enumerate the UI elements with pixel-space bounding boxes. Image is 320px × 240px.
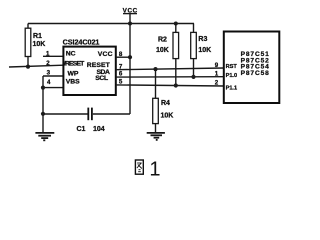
resistor R4 — [153, 98, 174, 123]
wire R2 top — [175, 24, 177, 33]
svg-text:4: 4 — [47, 79, 51, 86]
svg-text:R2: R2 — [158, 37, 167, 44]
svg-text:/RESET: /RESET — [64, 60, 85, 67]
svg-text:104: 104 — [93, 126, 105, 133]
MCU U2 P87C5x body — [224, 32, 279, 104]
wire R2 bottom to SCL — [175, 59, 177, 86]
power symbol VCC — [123, 7, 138, 23]
svg-text:SCL: SCL — [95, 75, 108, 82]
svg-text:R1: R1 — [33, 33, 42, 40]
wire pin3 stub — [43, 75, 63, 77]
IC U1 CSI24C021 body — [63, 47, 115, 95]
wire ground stem — [42, 114, 44, 133]
wire left vertical pin3-pin4-ground — [42, 76, 44, 114]
svg-text:2: 2 — [215, 80, 219, 87]
wire pin4 stub — [43, 87, 63, 89]
svg-text:CSI24C021: CSI24C021 — [63, 37, 100, 46]
wire R4 top — [155, 69, 157, 98]
svg-text:P1.0: P1.0 — [226, 73, 238, 79]
resistor R2 — [156, 32, 179, 58]
svg-text:NC: NC — [66, 50, 76, 57]
wire R3 bottom to SDA — [193, 59, 195, 77]
wire C1 right — [93, 113, 130, 115]
svg-text:10K: 10K — [156, 47, 169, 54]
wire C1 left — [43, 113, 88, 115]
svg-text:RESET: RESET — [87, 62, 111, 69]
caption glyph 图 (drawn) — [135, 160, 143, 174]
node junction R4 on line A — [153, 67, 157, 71]
ground GND2 — [147, 133, 165, 140]
svg-text:10K: 10K — [161, 113, 174, 120]
svg-text:RST: RST — [226, 64, 238, 70]
svg-text:P87C58: P87C58 — [241, 70, 270, 77]
svg-text:10K: 10K — [33, 41, 46, 48]
wire pin8 stub — [116, 56, 130, 58]
svg-text:C1: C1 — [77, 126, 86, 133]
wire VCC rail — [28, 23, 194, 25]
svg-text:1: 1 — [215, 71, 219, 78]
node junction R1 on pin2 net — [26, 65, 30, 69]
wire VCC vertical to C1 — [129, 24, 131, 115]
resistor R1 — [25, 28, 45, 56]
svg-text:10K: 10K — [198, 47, 211, 54]
node junction C1 left / ground — [41, 112, 45, 116]
svg-text:WP: WP — [68, 71, 79, 78]
wire net SDA line B — [116, 76, 224, 78]
node junction R2 on line C — [174, 83, 178, 87]
ground GND1 — [35, 133, 54, 140]
svg-text:VBS: VBS — [66, 79, 80, 86]
wire pin1 stub — [43, 55, 63, 57]
node junction pin4 — [41, 86, 45, 90]
wire pin2 net to /RESET — [9, 65, 63, 67]
capacitor C1 — [77, 108, 105, 133]
node junction R2 top on rail — [174, 22, 178, 26]
node junction VCC stem on rail — [128, 22, 132, 26]
svg-text:R4: R4 — [161, 100, 170, 107]
wire R4 bottom — [155, 124, 157, 133]
node junction pin8 VCC — [128, 55, 132, 59]
svg-text:VCC: VCC — [98, 51, 113, 58]
svg-text:R3: R3 — [198, 36, 207, 43]
wire R1 top — [27, 24, 29, 29]
wire net RESET line A — [116, 68, 224, 70]
svg-text:1: 1 — [149, 158, 160, 180]
wire R1 bottom — [27, 57, 29, 67]
wire R3 top — [193, 24, 195, 33]
svg-text:9: 9 — [215, 62, 219, 69]
wire net SCL line C — [116, 85, 224, 86]
svg-text:2: 2 — [46, 60, 50, 67]
resistor R3 — [191, 32, 212, 58]
node junction R3 on line B — [191, 75, 195, 79]
svg-text:P1.1: P1.1 — [226, 86, 238, 92]
